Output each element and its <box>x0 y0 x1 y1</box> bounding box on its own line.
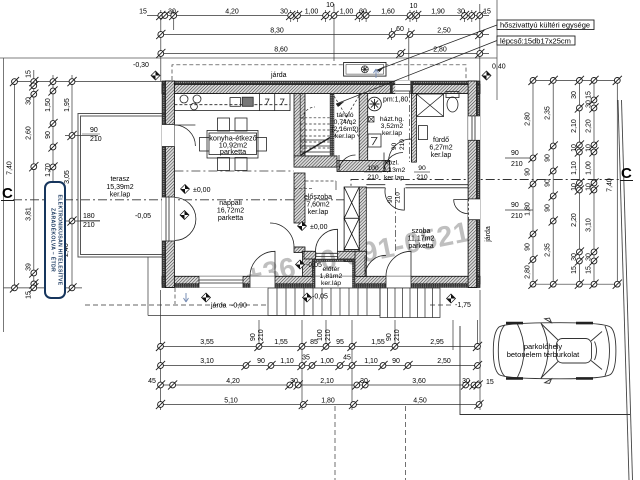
svg-text:1,10: 1,10 <box>364 358 378 365</box>
furdo label <box>429 137 452 159</box>
svg-text:parketta: parketta <box>408 243 433 250</box>
furdo shower <box>417 94 444 117</box>
eloszoba label <box>304 194 332 216</box>
svg-text:1,90: 1,90 <box>431 9 445 16</box>
door bottom wall szoba <box>386 276 411 287</box>
svg-text:2,20: 2,20 <box>571 213 578 227</box>
door label 90/210 vertical <box>391 139 406 150</box>
svg-text:házt.hg.: házt.hg. <box>380 116 404 123</box>
svg-text:2,10: 2,10 <box>571 119 578 133</box>
svg-text:90: 90 <box>250 333 257 341</box>
watermark phone number <box>243 216 473 293</box>
svg-text:járda: járda <box>210 303 227 310</box>
benchmark top-left <box>151 71 160 80</box>
hazt.hg washer <box>368 97 382 111</box>
svg-text:parketta: parketta <box>220 147 247 156</box>
eloter recess back wall with entrance door gap <box>304 251 316 259</box>
bottom wall <box>162 276 480 287</box>
svg-text:1,70: 1,70 <box>45 163 52 177</box>
eloszoba 0.00 <box>298 222 307 231</box>
svg-text:30: 30 <box>26 97 33 105</box>
svg-text:2,80: 2,80 <box>433 47 447 54</box>
svg-text:30: 30 <box>290 378 298 385</box>
callout boxes top right <box>497 20 594 30</box>
svg-text:1,50: 1,50 <box>45 98 52 112</box>
svg-text:10: 10 <box>571 183 578 191</box>
svg-text:-0,05: -0,05 <box>306 262 322 269</box>
roof overhang dashed outline <box>172 65 466 80</box>
svg-text:pm:1,80: pm:1,80 <box>383 97 408 104</box>
car body <box>493 323 616 379</box>
svg-text:8,60: 8,60 <box>274 47 288 54</box>
svg-text:1,00: 1,00 <box>305 9 319 16</box>
svg-text:terasz: terasz <box>110 176 130 183</box>
svg-text:ZÁRADÉKOLVA – ÉTDR: ZÁRADÉKOLVA – ÉTDR <box>50 208 58 272</box>
top wall <box>162 81 480 94</box>
svg-text:-0,05: -0,05 <box>135 213 151 220</box>
svg-text:1,00: 1,00 <box>586 161 593 175</box>
svg-text:3,60: 3,60 <box>412 378 426 385</box>
parking area border <box>460 326 630 415</box>
svg-text:(2,16m2): (2,16m2) <box>331 126 358 133</box>
svg-text:210: 210 <box>325 329 332 341</box>
svg-text:lépcső:15db17x25cm: lépcső:15db17x25cm <box>500 37 571 46</box>
hazt.hg label <box>380 116 404 137</box>
right wall <box>468 81 480 288</box>
windshield base <box>541 323 548 379</box>
svg-text:39: 39 <box>26 263 33 271</box>
svg-text:30: 30 <box>168 9 176 16</box>
c-pillars <box>591 332 602 370</box>
svg-text:45: 45 <box>148 378 156 385</box>
svg-text:15: 15 <box>486 379 494 386</box>
svg-text:90: 90 <box>545 154 552 162</box>
svg-text:100: 100 <box>367 165 379 172</box>
konyha/nappali boundary dash-dot <box>174 170 294 172</box>
svg-text:járda: járda <box>485 226 492 243</box>
svg-text:hőszivattyú kültéri egysége: hőszivattyú kültéri egysége <box>500 21 590 30</box>
door left wall nappali-terrace 1,80 <box>162 197 174 241</box>
door bottom wall nappali porch <box>250 276 275 287</box>
konyha label box <box>209 133 257 155</box>
boiler <box>368 134 381 147</box>
svg-text:2,13m2: 2,13m2 <box>383 167 406 174</box>
tarolo labels <box>331 112 358 140</box>
section line C-C (dash-dot) <box>13 180 620 200</box>
svg-text:ker.lap: ker.lap <box>110 192 131 199</box>
svg-text:30: 30 <box>586 253 593 261</box>
svg-text:30: 30 <box>571 91 578 99</box>
nappali terrace door arcs <box>174 198 196 241</box>
svg-text:90: 90 <box>90 127 98 134</box>
svg-text:15: 15 <box>571 266 578 274</box>
svg-text:4,20: 4,20 <box>225 9 239 16</box>
svg-text:-1,75: -1,75 <box>455 302 471 309</box>
szoba door axis dashed <box>395 188 397 251</box>
svg-text:2,50: 2,50 <box>437 28 451 35</box>
szoba label <box>408 228 435 250</box>
svg-text:90: 90 <box>545 179 552 187</box>
svg-text:30: 30 <box>457 9 465 16</box>
roof <box>557 339 592 364</box>
svg-text:8,30: 8,30 <box>270 28 284 35</box>
svg-text:járda: járda <box>270 72 287 79</box>
svg-text:3,81: 3,81 <box>26 207 33 221</box>
svg-text:ELEKTRONIKUSAN HITELESÍTVE: ELEKTRONIKUSAN HITELESÍTVE <box>57 194 65 285</box>
svg-text:35: 35 <box>302 355 310 362</box>
svg-text:15,39m2: 15,39m2 <box>106 184 133 191</box>
furdo door arc <box>384 153 403 172</box>
rear window <box>595 342 597 361</box>
svg-text:15: 15 <box>586 91 593 99</box>
opening top wall hazt.hg door 395-410 <box>390 81 413 94</box>
eloter label <box>320 266 343 287</box>
kitchen door arc <box>174 125 195 146</box>
dining table <box>200 118 267 171</box>
svg-text:180: 180 <box>83 213 95 220</box>
svg-text:210: 210 <box>511 213 523 220</box>
svg-text:90: 90 <box>45 131 52 139</box>
svg-text:2,50: 2,50 <box>437 358 451 365</box>
svg-text:10: 10 <box>571 144 578 152</box>
svg-text:3,05: 3,05 <box>64 170 71 184</box>
svg-text:15: 15 <box>586 266 593 274</box>
svg-text:ker.láp: ker.láp <box>321 280 341 287</box>
svg-text:0,40: 0,40 <box>492 64 506 71</box>
entry stairs <box>380 288 440 318</box>
svg-text:15: 15 <box>26 70 33 78</box>
svg-text:ker.lap: ker.lap <box>308 209 329 216</box>
svg-text:210: 210 <box>395 192 402 203</box>
furdo wc <box>446 92 459 113</box>
svg-text:90: 90 <box>418 165 426 172</box>
svg-text:15: 15 <box>26 291 33 299</box>
svg-text:ker.lap: ker.lap <box>335 133 355 140</box>
nappali porch door leaf+arc <box>250 251 275 276</box>
stairs <box>300 94 330 156</box>
svg-text:1,95: 1,95 <box>64 98 71 112</box>
svg-text:210: 210 <box>90 136 102 143</box>
svg-text:10: 10 <box>586 144 593 152</box>
svg-text:90: 90 <box>545 204 552 212</box>
plot boundary line left <box>3 58 5 332</box>
a-pillars <box>541 324 558 379</box>
svg-text:C: C <box>621 165 632 182</box>
svg-text:210: 210 <box>511 161 523 168</box>
leader lines <box>377 25 497 70</box>
svg-text:3,52m2: 3,52m2 <box>381 123 404 130</box>
svg-text:2,35: 2,35 <box>545 243 552 257</box>
trunk <box>605 326 610 376</box>
svg-text:30: 30 <box>359 9 367 16</box>
svg-text:4,20: 4,20 <box>226 378 240 385</box>
svg-text:1,10: 1,10 <box>280 358 294 365</box>
svg-text:2,20: 2,20 <box>586 119 593 133</box>
entrance door arc into eloszoba <box>316 229 338 251</box>
svg-text:210: 210 <box>367 174 379 181</box>
svg-text:szoba: szoba <box>412 228 431 235</box>
szoba door leaf+arc <box>385 188 404 210</box>
svg-text:90: 90 <box>511 150 519 157</box>
svg-text:90: 90 <box>511 202 519 209</box>
furdo washbasin <box>418 126 427 140</box>
eloter recess right wall <box>355 251 366 276</box>
nappali 0.00 benchmark <box>181 185 190 194</box>
entrance door glazing <box>316 252 338 254</box>
svg-text:ker.lap: ker.lap <box>384 175 404 182</box>
wall hazt.hg/furdo vertical <box>412 94 417 163</box>
svg-text:15: 15 <box>139 9 147 16</box>
hood line <box>517 323 524 378</box>
svg-text:betonelem térburkolat: betonelem térburkolat <box>507 350 580 359</box>
plot boundary double line right (slanted) <box>618 100 629 480</box>
svg-text:ker.lap: ker.lap <box>382 130 402 137</box>
svg-text:4,50: 4,50 <box>413 398 427 405</box>
svg-text:-0,90: -0,90 <box>231 303 247 310</box>
kitchen counter <box>174 94 290 111</box>
wheels dark <box>506 323 523 378</box>
mirrors <box>545 318 552 383</box>
svg-text:2,95: 2,95 <box>430 339 444 346</box>
eloter recess left wall <box>303 251 313 276</box>
plot boundary line top <box>0 57 497 59</box>
svg-text:2,35: 2,35 <box>545 106 552 120</box>
svg-text:45: 45 <box>343 355 351 362</box>
front bumper <box>498 325 505 377</box>
wall nappali/eloszoba vertical <box>294 94 305 156</box>
svg-text:ker.lap: ker.lap <box>431 152 452 159</box>
benchmark eloter <box>296 260 305 269</box>
nappali label <box>217 200 244 222</box>
svg-text:10: 10 <box>586 183 593 191</box>
svg-text:30: 30 <box>360 378 368 385</box>
svg-text:1,55: 1,55 <box>274 339 288 346</box>
recess inner insulation dots <box>313 259 356 262</box>
hazt door arc <box>389 139 412 162</box>
jarda dashed walkway bottom-left <box>85 304 268 306</box>
svg-text:1,60: 1,60 <box>381 9 395 16</box>
svg-text:1,10: 1,10 <box>571 161 578 175</box>
plot boundary line top-right vertical <box>496 0 498 100</box>
svg-text:90: 90 <box>257 358 265 365</box>
wall furdo/kozl horizontal <box>337 160 390 171</box>
svg-text:95: 95 <box>336 339 344 346</box>
terrace outline <box>78 114 167 258</box>
svg-text:-0,30: -0,30 <box>133 62 149 69</box>
tarolo door arc <box>339 155 356 172</box>
svg-text:előtér: előtér <box>322 266 340 273</box>
svg-text:7,60m2: 7,60m2 <box>306 202 329 209</box>
left wall <box>162 81 174 288</box>
svg-text:fürdő: fürdő <box>433 137 449 144</box>
svg-text:közl.: közl. <box>385 160 399 167</box>
svg-text:nappali: nappali <box>219 200 242 207</box>
eloszoba-nappali opening arc (door in wall x294-305) <box>270 223 305 247</box>
svg-text:15: 15 <box>483 9 491 16</box>
beam dashed lines eloszoba <box>294 181 336 188</box>
szoba left wall strip <box>359 187 366 262</box>
svg-text:100: 100 <box>317 329 324 341</box>
thin partition eloszoba-kozl / szoba <box>366 185 468 188</box>
szoba door leaf+arc <box>386 251 411 276</box>
svg-text:±0,00: ±0,00 <box>193 187 211 194</box>
tarolo dashed attic lines <box>334 96 359 137</box>
svg-text:1,80: 1,80 <box>321 398 335 405</box>
svg-text:2,10: 2,10 <box>320 378 334 385</box>
svg-text:3,10: 3,10 <box>200 358 214 365</box>
window right wall furdo 90 <box>468 116 480 140</box>
svg-text:210: 210 <box>394 329 401 341</box>
svg-text:3,10: 3,10 <box>586 218 593 232</box>
svg-text:90: 90 <box>525 168 532 176</box>
svg-text:6,27m2: 6,27m2 <box>429 145 452 152</box>
svg-text:0,74m2: 0,74m2 <box>334 119 357 126</box>
svg-text:90: 90 <box>525 243 532 251</box>
svg-text:90: 90 <box>391 142 398 150</box>
dashed verticals below <box>334 406 336 480</box>
extension verticals <box>160 10 162 81</box>
svg-text:2,60: 2,60 <box>26 126 33 140</box>
window bottom wall nappali 1,90 <box>199 276 243 287</box>
svg-text:5,10: 5,10 <box>224 398 238 405</box>
svg-text:90: 90 <box>392 358 400 365</box>
svg-text:C: C <box>2 185 13 202</box>
svg-text:210: 210 <box>83 222 95 229</box>
svg-text:3,55: 3,55 <box>200 339 214 346</box>
svg-text:30: 30 <box>586 100 593 108</box>
szoba bottom door arc <box>365 255 386 276</box>
svg-text:1,80: 1,80 <box>525 202 532 216</box>
svg-text:1,55: 1,55 <box>371 339 385 346</box>
svg-text:2,80: 2,80 <box>525 112 532 126</box>
svg-text:±0,00: ±0,00 <box>310 224 328 231</box>
svg-text:210: 210 <box>399 139 406 150</box>
svg-text:10: 10 <box>410 3 418 10</box>
door right wall szoba 90 <box>454 199 480 220</box>
svg-text:parketta: parketta <box>218 215 243 222</box>
svg-text:7,40: 7,40 <box>7 161 14 175</box>
benchmark top-right <box>482 71 491 80</box>
svg-text:210: 210 <box>258 329 265 341</box>
chimney <box>344 187 359 250</box>
svg-text:1,00: 1,00 <box>320 358 334 365</box>
benchmarks bottom <box>202 293 211 302</box>
svg-text:30: 30 <box>462 378 470 385</box>
svg-text:210: 210 <box>416 174 428 181</box>
svg-text:7,40: 7,40 <box>607 178 614 192</box>
svg-text:tároló: tároló <box>336 112 353 119</box>
svg-text:előszoba: előszoba <box>304 194 332 201</box>
svg-text:10: 10 <box>326 2 334 9</box>
svg-text:16,72m2: 16,72m2 <box>217 208 244 215</box>
wall tarolo/hazt.hg vertical <box>359 94 368 168</box>
svg-text:1,00: 1,00 <box>340 9 354 16</box>
svg-text:30: 30 <box>571 253 578 261</box>
svg-text:30: 30 <box>280 9 288 16</box>
wall under stair horizontal <box>294 156 337 167</box>
terrace benchmark <box>180 211 189 220</box>
svg-text:2,80: 2,80 <box>525 265 532 279</box>
svg-text:11,17m2: 11,17m2 <box>408 236 435 243</box>
svg-text:60: 60 <box>396 26 404 33</box>
svg-text:1,81m2: 1,81m2 <box>320 273 343 280</box>
svg-text:-0,05: -0,05 <box>312 294 328 301</box>
svg-text:90: 90 <box>387 195 394 203</box>
svg-text:90: 90 <box>386 333 393 341</box>
door left wall kitchen-terrace 90 <box>162 125 174 147</box>
recess opening in bottom wall (open porch) <box>313 276 356 287</box>
